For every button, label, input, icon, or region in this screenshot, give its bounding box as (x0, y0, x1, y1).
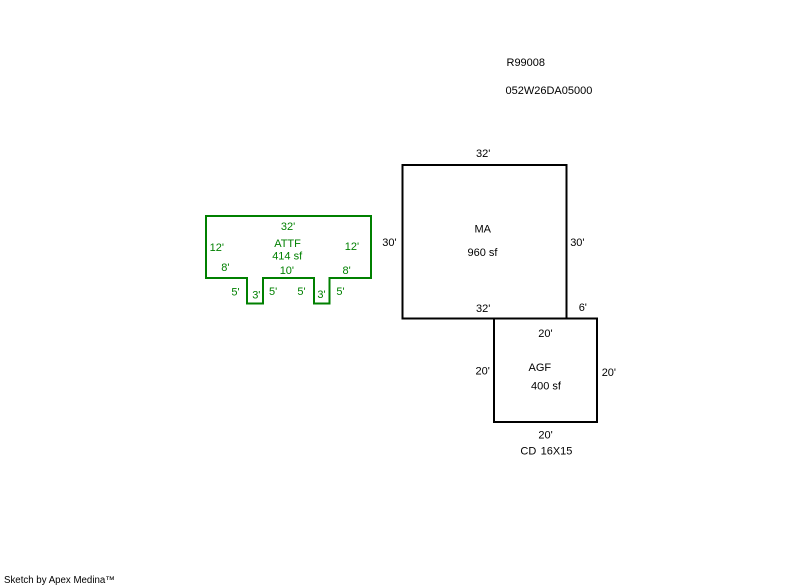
svg-text:32': 32' (476, 303, 490, 315)
svg-text:5': 5' (231, 287, 239, 299)
svg-text:R99008: R99008 (507, 57, 546, 69)
svg-text:3': 3' (317, 289, 325, 301)
svg-text:5': 5' (336, 286, 344, 298)
svg-text:20': 20' (538, 429, 552, 441)
svg-text:400 sf: 400 sf (531, 381, 562, 393)
svg-text:960 sf: 960 sf (468, 247, 499, 259)
svg-text:20': 20' (602, 367, 616, 379)
svg-text:6': 6' (579, 302, 587, 314)
svg-text:30': 30' (570, 237, 584, 249)
svg-text:8': 8' (343, 265, 351, 277)
svg-text:CD: CD (520, 446, 536, 458)
svg-text:414 sf: 414 sf (272, 251, 303, 263)
svg-text:5': 5' (297, 286, 305, 298)
svg-text:12': 12' (210, 242, 224, 254)
svg-text:32': 32' (281, 221, 295, 233)
svg-text:052W26DA05000: 052W26DA05000 (506, 85, 593, 97)
svg-text:8': 8' (221, 262, 229, 274)
svg-text:3': 3' (252, 290, 260, 302)
svg-text:12': 12' (345, 241, 359, 253)
svg-text:30': 30' (382, 237, 396, 249)
svg-text:ATTF: ATTF (274, 238, 301, 250)
svg-text:20': 20' (538, 328, 552, 340)
svg-text:32': 32' (476, 148, 490, 160)
area MA outline (402, 165, 566, 319)
svg-text:5': 5' (269, 286, 277, 298)
svg-text:MA: MA (475, 223, 492, 235)
area ATTF outline (206, 216, 371, 304)
svg-text:10': 10' (280, 265, 294, 277)
svg-text:16X15: 16X15 (541, 446, 573, 458)
svg-text:20': 20' (476, 366, 490, 378)
svg-text:AGF: AGF (529, 362, 552, 374)
svg-text:Sketch by Apex Medina™: Sketch by Apex Medina™ (4, 575, 115, 586)
area AGF outline (494, 319, 597, 423)
